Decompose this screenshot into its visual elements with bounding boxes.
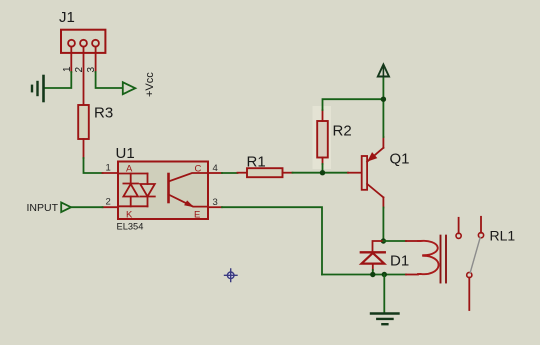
svg-text:D1: D1 (390, 252, 409, 269)
svg-text:R3: R3 (94, 105, 113, 122)
svg-text:R2: R2 (333, 123, 352, 140)
svg-text:1: 1 (62, 66, 73, 72)
svg-text:3: 3 (213, 197, 218, 208)
svg-text:Q1: Q1 (390, 151, 410, 168)
svg-text:C: C (195, 163, 202, 174)
svg-text:1: 1 (106, 162, 111, 173)
svg-text:U1: U1 (116, 145, 135, 162)
svg-text:2: 2 (74, 67, 85, 73)
svg-text:2: 2 (106, 197, 111, 208)
svg-text:4: 4 (213, 163, 218, 174)
svg-text:INPUT: INPUT (27, 202, 59, 214)
svg-text:R1: R1 (247, 154, 266, 171)
svg-text:+Vcc: +Vcc (144, 72, 156, 97)
svg-text:J1: J1 (59, 9, 75, 26)
svg-text:RL1: RL1 (490, 227, 516, 243)
svg-text:K: K (126, 209, 133, 220)
svg-text:3: 3 (86, 67, 97, 73)
svg-text:EL354: EL354 (117, 221, 144, 231)
svg-text:E: E (194, 209, 200, 220)
svg-text:A: A (126, 163, 133, 174)
